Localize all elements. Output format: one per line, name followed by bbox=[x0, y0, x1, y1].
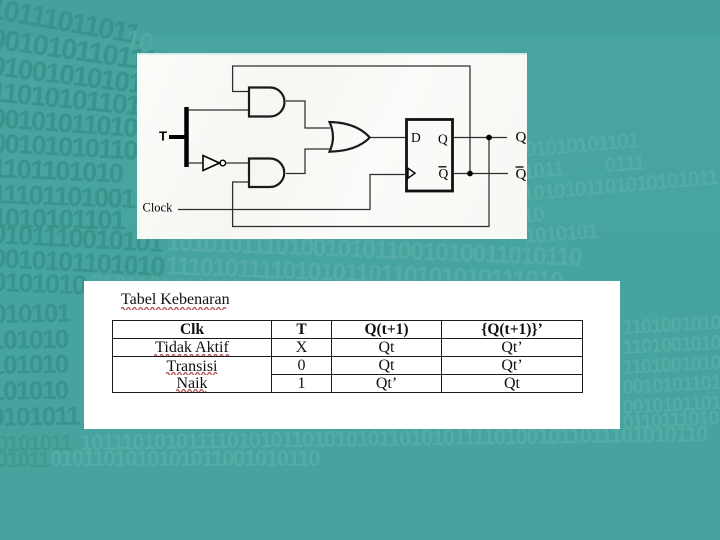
svg-text:D: D bbox=[411, 130, 421, 145]
svg-text:Q: Q bbox=[439, 166, 449, 181]
svg-text:Q: Q bbox=[516, 130, 527, 146]
svg-text:Q: Q bbox=[516, 166, 527, 182]
svg-text:T: T bbox=[159, 129, 167, 144]
svg-text:Clock: Clock bbox=[143, 201, 174, 215]
svg-text:Q: Q bbox=[438, 132, 448, 147]
